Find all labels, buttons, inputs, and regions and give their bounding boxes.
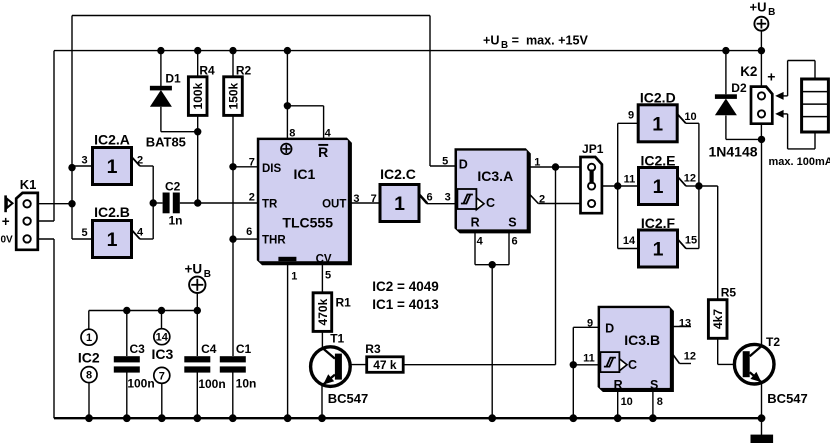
svg-text:IC1: IC1 xyxy=(294,166,316,182)
svg-text:5: 5 xyxy=(81,227,87,239)
svg-text:R4: R4 xyxy=(199,64,215,78)
svg-text:3: 3 xyxy=(353,193,359,205)
svg-text:R: R xyxy=(614,378,623,392)
svg-text:6: 6 xyxy=(426,192,432,204)
svg-text:2: 2 xyxy=(137,155,143,167)
svg-text:IC2.D: IC2.D xyxy=(640,90,676,106)
svg-text:15: 15 xyxy=(685,235,697,247)
svg-text:47 k: 47 k xyxy=(373,358,397,372)
svg-text:1: 1 xyxy=(653,176,664,198)
svg-text:6: 6 xyxy=(511,236,517,248)
svg-text:D: D xyxy=(605,321,614,335)
svg-text:BC547: BC547 xyxy=(328,391,368,406)
svg-text:IC2.A: IC2.A xyxy=(94,132,130,148)
svg-text:100k: 100k xyxy=(191,82,205,109)
svg-text:7: 7 xyxy=(249,157,255,169)
svg-text:IC3.A: IC3.A xyxy=(477,168,513,184)
svg-text:1: 1 xyxy=(107,229,118,251)
svg-text:4: 4 xyxy=(477,236,484,248)
svg-text:100n: 100n xyxy=(198,377,225,391)
svg-text:4k7: 4k7 xyxy=(711,309,725,329)
svg-text:R5: R5 xyxy=(721,286,737,300)
svg-text:BAT85: BAT85 xyxy=(146,135,186,150)
svg-text:T1: T1 xyxy=(330,332,344,346)
svg-text:10: 10 xyxy=(684,111,696,123)
svg-text:1N4148: 1N4148 xyxy=(709,144,758,160)
svg-text:1: 1 xyxy=(394,193,405,215)
svg-text:100n: 100n xyxy=(127,377,154,391)
svg-text:9: 9 xyxy=(587,317,593,329)
svg-text:R: R xyxy=(318,144,328,160)
svg-text:C: C xyxy=(486,196,495,210)
svg-text:1n: 1n xyxy=(168,214,182,228)
svg-text:1: 1 xyxy=(86,332,92,344)
svg-text:14: 14 xyxy=(156,332,169,344)
svg-text:D2: D2 xyxy=(731,81,747,95)
svg-text:THR: THR xyxy=(262,235,286,247)
svg-text:10n: 10n xyxy=(236,377,257,391)
svg-text:K2: K2 xyxy=(740,64,757,79)
svg-text:1: 1 xyxy=(652,113,663,135)
svg-text:T2: T2 xyxy=(766,335,780,349)
svg-text:5: 5 xyxy=(442,156,448,168)
svg-text:4: 4 xyxy=(137,227,144,239)
svg-text:IC2.B: IC2.B xyxy=(94,204,130,220)
svg-text:C3: C3 xyxy=(130,342,146,356)
svg-text:11: 11 xyxy=(624,173,636,185)
svg-text:1: 1 xyxy=(291,271,297,283)
svg-text:1: 1 xyxy=(534,157,540,169)
svg-text:8: 8 xyxy=(657,396,663,408)
svg-text:0V: 0V xyxy=(1,234,14,245)
svg-text:13: 13 xyxy=(679,317,691,329)
svg-text:IC3: IC3 xyxy=(152,346,174,362)
svg-text:C4: C4 xyxy=(201,342,217,356)
svg-text:12: 12 xyxy=(684,351,696,363)
svg-text:IC2.C: IC2.C xyxy=(380,166,416,182)
svg-text:R1: R1 xyxy=(336,296,352,310)
svg-text:IC2.E: IC2.E xyxy=(640,153,675,169)
svg-text:D: D xyxy=(459,157,468,171)
svg-text:6: 6 xyxy=(246,226,252,238)
svg-text:S: S xyxy=(508,215,516,229)
svg-text:DIS: DIS xyxy=(262,163,282,175)
svg-text:IC2: IC2 xyxy=(78,349,100,365)
svg-text:150k: 150k xyxy=(227,82,241,109)
svg-text:C2: C2 xyxy=(165,180,181,194)
svg-text:OUT: OUT xyxy=(322,198,346,210)
svg-text:8: 8 xyxy=(86,370,92,382)
svg-text:C: C xyxy=(628,358,637,372)
svg-text:max. 100mA: max. 100mA xyxy=(769,156,830,168)
svg-text:IC2 = 4049: IC2 = 4049 xyxy=(372,279,438,294)
svg-text:2: 2 xyxy=(249,192,255,204)
svg-text:BC547: BC547 xyxy=(767,391,807,406)
svg-text:D1: D1 xyxy=(165,72,181,86)
svg-text:470k: 470k xyxy=(316,298,330,325)
svg-text:3: 3 xyxy=(81,155,87,167)
svg-text:12: 12 xyxy=(684,173,696,185)
svg-text:1: 1 xyxy=(653,239,664,261)
svg-text:5: 5 xyxy=(325,270,331,282)
svg-text:IC1 = 4013: IC1 = 4013 xyxy=(372,297,439,312)
svg-text:+: + xyxy=(767,69,775,85)
svg-text:C1: C1 xyxy=(236,342,252,356)
svg-text:K1: K1 xyxy=(20,177,37,192)
svg-text:11: 11 xyxy=(583,353,595,365)
svg-text:IC2.F: IC2.F xyxy=(641,215,676,231)
svg-text:7: 7 xyxy=(159,370,165,382)
svg-text:TR: TR xyxy=(262,198,278,210)
svg-text:1: 1 xyxy=(107,156,118,178)
svg-text:CV: CV xyxy=(316,253,332,265)
svg-text:+: + xyxy=(2,214,10,229)
svg-text:R2: R2 xyxy=(236,64,252,78)
svg-text:3: 3 xyxy=(445,192,451,204)
svg-text:8: 8 xyxy=(289,128,295,140)
svg-text:S: S xyxy=(650,378,658,392)
svg-text:4: 4 xyxy=(325,128,332,140)
svg-text:R3: R3 xyxy=(365,342,381,356)
svg-text:2: 2 xyxy=(539,194,545,206)
svg-text:14: 14 xyxy=(623,235,636,247)
svg-text:TLC555: TLC555 xyxy=(282,215,333,231)
svg-text:9: 9 xyxy=(628,109,634,121)
svg-text:10: 10 xyxy=(621,396,633,408)
svg-text:7: 7 xyxy=(371,193,377,205)
svg-text:R: R xyxy=(471,215,480,229)
svg-text:JP1: JP1 xyxy=(582,142,604,156)
svg-text:IC3.B: IC3.B xyxy=(624,332,660,348)
